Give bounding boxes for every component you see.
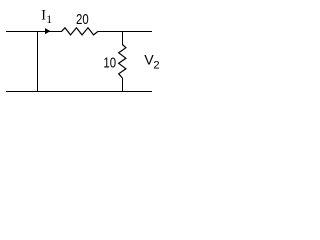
wire left vertical bbox=[37, 31, 39, 92]
svg-text:20: 20 bbox=[76, 10, 89, 27]
label I1 bbox=[41, 8, 52, 27]
svg-text:2: 2 bbox=[153, 59, 159, 71]
resistor R1 (20 ohm, horizontal) bbox=[62, 28, 99, 35]
svg-text:10: 10 bbox=[103, 54, 116, 71]
wire right vertical bottom stub bbox=[122, 78, 124, 92]
wire top-left segment bbox=[6, 31, 62, 33]
label V2 bbox=[144, 52, 159, 71]
svg-text:1: 1 bbox=[46, 14, 52, 26]
wire bottom bbox=[6, 91, 152, 93]
wire top-right segment bbox=[98, 31, 152, 33]
wire right vertical top stub bbox=[122, 31, 124, 45]
resistor R2 (10 ohm, vertical) bbox=[119, 45, 126, 79]
current arrow I1 bbox=[45, 28, 50, 34]
